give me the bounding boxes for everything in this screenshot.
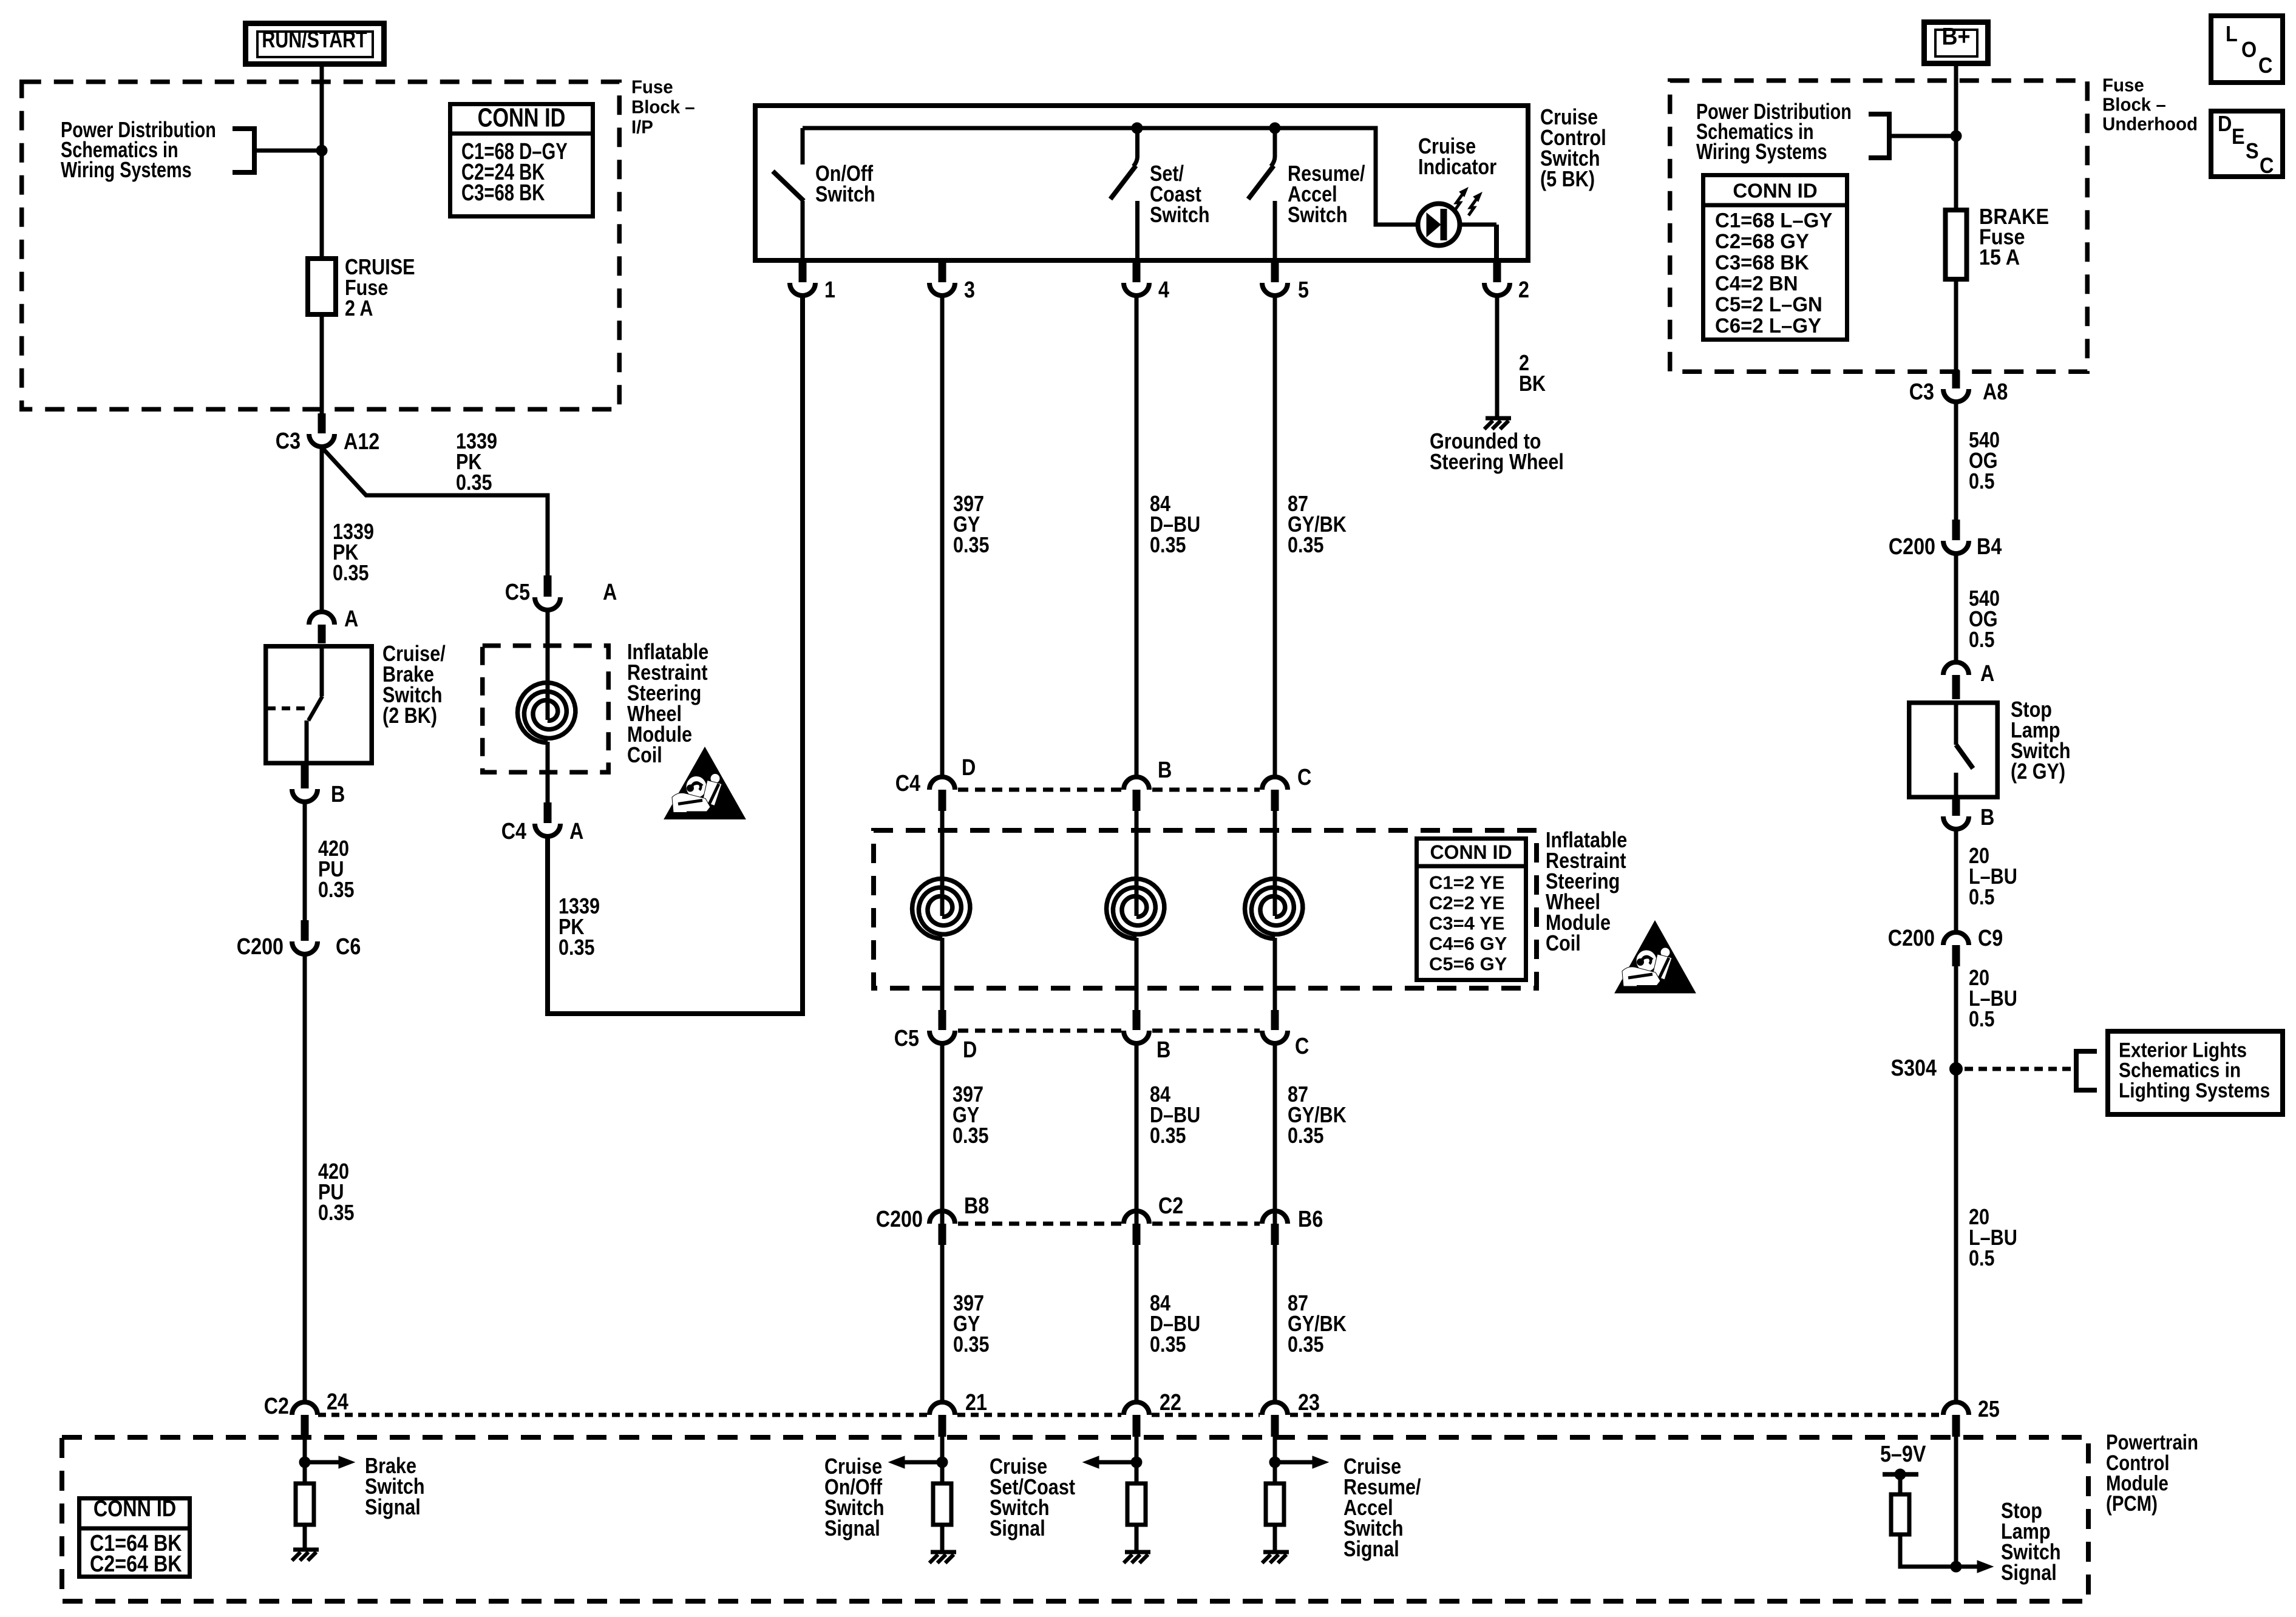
fuse CRUISE 2A (308, 259, 336, 314)
svg-text:B: B (1158, 758, 1172, 783)
connector C200/B6 (1262, 1211, 1288, 1245)
svg-text:Signal: Signal (2001, 1561, 2057, 1585)
switch On/Off (773, 128, 804, 263)
svg-text:Wiring Systems: Wiring Systems (1696, 139, 1827, 164)
label On/Off Switch (815, 162, 875, 207)
wire C3 to brake switch A (320, 446, 324, 611)
label Stop Lamp Switch (2 GY) (2011, 698, 2071, 784)
dashed actuation line brake switch (267, 707, 307, 711)
connector pin 2 (1484, 262, 1510, 296)
wire label 420 PU 0.35 upper (318, 837, 355, 903)
svg-text:Switch: Switch (1288, 203, 1348, 228)
svg-text:B: B (1156, 1037, 1170, 1063)
svg-text:C200: C200 (1888, 926, 1935, 951)
resistor PCM stop lamp pullup (1891, 1494, 1909, 1534)
svg-text:C5: C5 (894, 1026, 919, 1051)
svg-text:Signal: Signal (824, 1517, 880, 1541)
svg-text:L: L (2226, 22, 2238, 46)
label Powertrain Control Module (PCM) (2106, 1431, 2198, 1516)
ground PCM 2 (929, 1552, 956, 1563)
ground PCM 4 (1262, 1552, 1289, 1563)
svg-text:O: O (2241, 38, 2257, 62)
svg-text:C: C (2260, 154, 2274, 178)
table rows C1=68 D-GY C2=24 BK C3=68 BK (461, 138, 568, 206)
connector pin 5 (1262, 262, 1288, 296)
svg-text:C2=2 YE: C2=2 YE (1429, 892, 1504, 914)
svg-text:CONN ID: CONN ID (93, 1496, 176, 1522)
wire pin 21 into PCM (940, 1437, 945, 1483)
wire C5/C down (1273, 1045, 1277, 1402)
connector C3/A12 (309, 413, 335, 447)
wire resistor to ground 1 (303, 1525, 307, 1550)
table rows C1=2 YE C2=2 YE C3=4 YE C4=6 GY C5=6 GY (1429, 872, 1507, 974)
svg-text:C4=2 BN: C4=2 BN (1715, 273, 1798, 296)
terminal RUN/START (246, 24, 384, 64)
PCM connector dotted line (318, 1413, 1941, 1417)
svg-text:C6=2 L–GY: C6=2 L–GY (1715, 314, 1821, 337)
node junction power distribution (316, 145, 327, 156)
svg-text:D: D (963, 1037, 977, 1063)
connector C4/A coil (535, 802, 560, 836)
svg-text:C: C (1295, 1034, 1309, 1059)
coil spiral steering wheel module (518, 683, 576, 743)
node S304 (1950, 1063, 1963, 1076)
svg-text:0.35: 0.35 (1288, 1124, 1324, 1148)
wire label 397 GY 0.35 top (953, 492, 990, 558)
wire C5/D down (940, 1045, 945, 1402)
node cruise set/coast junction (1131, 1457, 1142, 1468)
coil spiral 3 (912, 879, 970, 939)
connector C5/B (1124, 1010, 1149, 1043)
wire label 397 GY 0.35 bottom (953, 1292, 990, 1357)
svg-text:Switch: Switch (815, 183, 875, 207)
inflatable restraint coil dashed box (483, 646, 609, 773)
connector row dashed line C200 (958, 1222, 1260, 1226)
connector row dashed line C4 (958, 788, 1260, 792)
wire C2/24 into PCM (303, 1437, 307, 1483)
svg-text:4: 4 (1158, 277, 1169, 303)
wire C4/A to cruise switch pin 1 (548, 297, 803, 1014)
svg-text:B: B (1980, 805, 1994, 830)
switch contacts stop lamp (1956, 703, 1973, 798)
svg-text:B4: B4 (1977, 534, 2002, 560)
svg-text:B6: B6 (1298, 1207, 1323, 1232)
wire label 20 L-BU 0.5 third (1969, 1205, 2017, 1271)
wire B to C200/C9 (1954, 830, 1958, 931)
svg-text:C3: C3 (276, 429, 301, 454)
svg-text:22: 22 (1160, 1390, 1181, 1415)
connector pin 4 (1124, 262, 1149, 296)
svg-text:Fuse: Fuse (631, 77, 673, 98)
wire label 2 BK (1519, 351, 1546, 396)
arrow cruise resume/accel signal (1275, 1456, 1328, 1468)
fuse BRAKE 15A (1946, 210, 1967, 279)
connector C200/C6 (292, 920, 318, 954)
svg-text:A8: A8 (1983, 379, 2008, 405)
wire resistor to ground 3 (1135, 1525, 1139, 1552)
label Power Distribution Schematics in Wiring Systems (61, 117, 216, 182)
table CONN ID underhood (1703, 175, 1847, 340)
svg-text:Signal: Signal (990, 1517, 1045, 1541)
label Power Distribution Schematics in Wiring Systems right (1696, 99, 1852, 164)
svg-text:Block –: Block – (2102, 95, 2166, 115)
wire label 84 D-BU 0.35 bottom (1150, 1292, 1200, 1357)
svg-text:24: 24 (327, 1389, 348, 1415)
wire RUN/START to fuse (320, 67, 324, 261)
connector pin 1 (790, 262, 815, 296)
svg-text:C3=68 BK: C3=68 BK (1715, 251, 1809, 274)
label Cruise Resume/Accel Switch Signal (1343, 1455, 1421, 1562)
connector A brake switch (309, 612, 335, 643)
wire into coil 3 (940, 811, 945, 916)
wire dashed S304 to exterior lights (1965, 1067, 2071, 1071)
svg-text:1: 1 (824, 277, 835, 303)
connector row dashed line C5 (958, 1029, 1260, 1033)
svg-text:C5: C5 (505, 580, 530, 605)
svg-text:0.35: 0.35 (953, 534, 990, 558)
resistor PCM brake input (296, 1483, 314, 1525)
LED light arrows (1455, 188, 1482, 215)
svg-text:C5=2 L–GN: C5=2 L–GN (1715, 294, 1822, 317)
arrow stop lamp switch signal (1956, 1561, 1993, 1573)
node cruise on/off junction (937, 1457, 948, 1468)
connector pin 3 (929, 262, 955, 296)
svg-text:0.35: 0.35 (333, 561, 369, 586)
label Cruise/Brake Switch (2 BK) (382, 642, 446, 728)
connector pin 23 (1262, 1402, 1288, 1437)
label Cruise Indicator (1418, 135, 1496, 180)
svg-text:0.35: 0.35 (456, 471, 492, 495)
wire out of coil 1 (546, 742, 550, 804)
svg-text:Underhood: Underhood (2102, 114, 2198, 135)
LOC reference box (2211, 16, 2283, 83)
svg-text:CONN ID: CONN ID (1733, 180, 1817, 202)
label Fuse Block - I/P (631, 77, 695, 138)
stop lamp switch box (1909, 703, 1998, 798)
svg-text:25: 25 (1978, 1397, 2000, 1422)
LED cruise indicator (1418, 204, 1497, 246)
svg-text:0.5: 0.5 (1969, 1008, 1995, 1032)
wire pin 22 into PCM (1135, 1437, 1139, 1483)
svg-text:(PCM): (PCM) (2106, 1492, 2158, 1516)
svg-text:RUN/START: RUN/START (262, 27, 367, 53)
wire label 397 GY 0.35 middle (953, 1083, 989, 1148)
cruise brake switch box (266, 646, 372, 764)
ground PCM 1 (292, 1550, 319, 1561)
connector pin 21 (929, 1402, 955, 1437)
svg-text:Signal: Signal (1343, 1537, 1399, 1562)
label Inflatable Restraint Steering Wheel Module Coil left (627, 640, 708, 768)
svg-text:Steering Wheel: Steering Wheel (1430, 450, 1564, 475)
terminal B+ (1924, 22, 1988, 64)
wire label 540 OG 0.5 upper (1969, 429, 2000, 494)
cruise control switch box (755, 106, 1528, 260)
wire label 87 GY/BK 0.35 top (1288, 492, 1347, 558)
svg-text:0.35: 0.35 (1150, 534, 1186, 558)
svg-text:(2 BK): (2 BK) (382, 704, 437, 728)
connector C3/A8 (1943, 370, 1969, 402)
node bus resume/accel (1269, 123, 1280, 134)
wire label 1339 PK 0.35 right branch (456, 430, 497, 495)
wire label 87 GY/BK 0.35 middle (1288, 1083, 1347, 1148)
svg-text:C4=6 GY: C4=6 GY (1429, 933, 1507, 954)
wire B+ down (1954, 66, 1958, 210)
svg-text:C3: C3 (1909, 379, 1934, 405)
connector C5/A coil (535, 575, 560, 610)
wire resistor to ground 4 (1273, 1525, 1277, 1552)
label BRAKE Fuse 15 A (1979, 205, 2049, 269)
wire label 87 GY/BK 0.35 bottom (1288, 1292, 1347, 1357)
wire pin 23 into PCM (1273, 1437, 1277, 1483)
svg-text:C: C (2258, 53, 2272, 78)
svg-text:C200: C200 (1889, 534, 1935, 560)
table CONN ID PCM (80, 1496, 190, 1577)
connector C200/C2 (1124, 1211, 1149, 1245)
wire fuse to C3/A8 (1954, 279, 1958, 371)
svg-text:C2=68 GY: C2=68 GY (1715, 231, 1809, 254)
table CONN ID fuse block I/P (450, 103, 593, 216)
airbag warning triangle 2 (1615, 921, 1696, 993)
wire label 84 D-BU 0.35 middle (1150, 1083, 1200, 1148)
svg-text:C2: C2 (1158, 1193, 1183, 1219)
wire label 540 OG 0.5 lower (1969, 587, 2000, 653)
svg-text:C3=4 YE: C3=4 YE (1429, 912, 1504, 934)
fuse block underhood dashed box (1670, 81, 2088, 372)
wire into coil 4 (1135, 811, 1139, 916)
svg-text:S: S (2246, 139, 2259, 163)
switch Resume/Accel (1248, 128, 1275, 263)
wire diagonal branch to C5 (322, 447, 548, 575)
svg-text:C4: C4 (895, 771, 921, 796)
svg-text:BK: BK (1519, 372, 1546, 396)
bracket power distribution reference (233, 129, 318, 172)
svg-text:D: D (962, 755, 976, 781)
svg-text:Indicator: Indicator (1418, 155, 1496, 180)
svg-text:C9: C9 (1978, 926, 2003, 951)
resistor PCM on/off input (933, 1483, 951, 1525)
svg-text:C1=2 YE: C1=2 YE (1429, 872, 1504, 893)
label Cruise On/Off Switch Signal (824, 1455, 885, 1541)
switch Set/Coast (1110, 128, 1138, 263)
table rows C1=64 BK C2=64 BK (90, 1531, 182, 1577)
svg-text:S304: S304 (1891, 1056, 1937, 1081)
svg-text:E: E (2232, 124, 2245, 149)
svg-text:5: 5 (1298, 277, 1309, 303)
connector pin 22 (1124, 1402, 1149, 1437)
wire label 20 L-BU 0.5 first (1969, 844, 2017, 910)
svg-text:0.35: 0.35 (953, 1124, 989, 1148)
wire label 1339 PK 0.35 below coil (559, 895, 600, 960)
connector C200/B8 (929, 1211, 955, 1245)
exterior lights reference box (2108, 1031, 2283, 1114)
svg-text:0.35: 0.35 (1150, 1333, 1186, 1357)
svg-text:0.35: 0.35 (1150, 1124, 1186, 1148)
wire C9 to S304 (1954, 966, 1958, 1402)
wire into coil 1 (546, 612, 550, 720)
wire internal supply bus (803, 128, 1417, 225)
label Resume/Accel Switch (1288, 162, 1365, 228)
DESC reference box (2211, 111, 2283, 178)
wire C3/A8 to C200/B4 (1954, 402, 1958, 521)
svg-text:3: 3 (964, 277, 975, 303)
coil spiral 5 (1245, 879, 1303, 939)
svg-text:2: 2 (1518, 277, 1529, 303)
connector C5/D (929, 1010, 955, 1043)
table rows C1..C6 underhood (1715, 209, 1832, 337)
svg-text:Lighting Systems: Lighting Systems (2119, 1079, 2270, 1102)
svg-text:0.35: 0.35 (1288, 1333, 1324, 1357)
svg-text:21: 21 (965, 1390, 987, 1415)
label Cruise Set/Coast Switch Signal (990, 1455, 1075, 1541)
svg-text:0.5: 0.5 (1969, 1247, 1995, 1271)
wire label 420 PU 0.35 lower (318, 1160, 355, 1225)
svg-text:0.5: 0.5 (1969, 628, 1995, 653)
svg-text:D: D (2218, 112, 2232, 136)
svg-text:(2 GY): (2 GY) (2011, 760, 2065, 784)
wire pin 5 down (1273, 296, 1277, 776)
svg-text:0.35: 0.35 (559, 936, 595, 960)
svg-text:C2: C2 (264, 1394, 289, 1419)
table CONN ID coil (1417, 839, 1526, 980)
svg-text:C: C (1297, 765, 1311, 790)
node bus set/coast (1132, 123, 1143, 134)
wire label 1339 PK 0.35 left branch (333, 520, 374, 586)
wire C200/B4 to stop lamp A (1954, 554, 1958, 662)
ground steering wheel (1484, 418, 1511, 429)
svg-text:B: B (331, 782, 345, 807)
connector C4/D (929, 777, 955, 811)
arrow brake switch signal (305, 1456, 355, 1468)
svg-text:C200: C200 (876, 1207, 923, 1232)
connector C2/24 PCM (292, 1402, 318, 1437)
svg-text:C1=68 L–GY: C1=68 L–GY (1715, 209, 1832, 232)
svg-text:A: A (569, 819, 583, 844)
svg-text:C4: C4 (501, 819, 527, 844)
wire label 84 D-BU 0.35 top (1150, 492, 1200, 558)
svg-text:Fuse: Fuse (2102, 75, 2144, 96)
label Set/Coast Switch (1150, 162, 1210, 228)
label Inflatable Restraint Steering Wheel Module Coil right (1546, 829, 1627, 956)
label CRUISE Fuse 2 A (345, 256, 415, 321)
svg-text:CONN ID: CONN ID (1430, 841, 1512, 863)
resistor PCM set/coast input (1127, 1483, 1146, 1525)
wire resistor to ground 2 (940, 1525, 945, 1552)
node stop lamp switch signal (1951, 1561, 1961, 1572)
connector C4/C (1262, 777, 1288, 811)
inflatable restraint coil dashed box 2 (874, 830, 1537, 988)
svg-text:A: A (1980, 661, 1994, 686)
wire out of coil 4 (1135, 938, 1139, 1010)
label Stop Lamp Switch Signal (2001, 1499, 2061, 1585)
svg-text:I/P: I/P (631, 117, 653, 138)
svg-text:C5=6 GY: C5=6 GY (1429, 953, 1507, 974)
svg-text:23: 23 (1298, 1390, 1320, 1415)
wire C5/B down (1135, 1045, 1139, 1402)
internal 5-9V supply bar (1883, 1469, 1918, 1494)
connector pin 25 (1943, 1402, 1969, 1437)
bracket power distribution reference right (1869, 114, 1952, 158)
svg-text:A: A (344, 606, 358, 632)
connector A stop lamp (1943, 662, 1969, 699)
svg-text:2 A: 2 A (345, 297, 373, 321)
wire pin 4 down (1135, 296, 1139, 776)
svg-text:C200: C200 (237, 934, 284, 960)
svg-text:C3=68 BK: C3=68 BK (461, 180, 545, 206)
wire pin 25 into PCM (1954, 1437, 1958, 1567)
ground PCM 3 (1124, 1552, 1150, 1563)
label Fuse Block - Underhood (2102, 75, 2198, 135)
svg-text:Signal: Signal (365, 1496, 421, 1520)
connector B brake switch (292, 764, 318, 802)
wire out of coil 3 (940, 938, 945, 1010)
arrow cruise on/off signal (889, 1456, 942, 1468)
resistor PCM resume input (1266, 1483, 1284, 1525)
svg-text:0.35: 0.35 (1288, 534, 1324, 558)
wire label 20 L-BU 0.5 second (1969, 966, 2017, 1032)
svg-text:Switch: Switch (1150, 203, 1210, 228)
wire resistor to stop lamp node (1900, 1534, 1952, 1567)
svg-text:Wiring Systems: Wiring Systems (61, 157, 192, 182)
connector C200/C9 (1943, 932, 1969, 966)
coil spiral 4 (1107, 879, 1164, 939)
wire pin 2 to ground (1495, 296, 1500, 418)
svg-text:B8: B8 (964, 1193, 989, 1219)
svg-text:0.5: 0.5 (1969, 470, 1995, 494)
wire LED to pin 2 (1494, 225, 1499, 263)
bracket exterior lights (2076, 1051, 2097, 1090)
svg-text:Coil: Coil (1546, 932, 1581, 956)
svg-text:15 A: 15 A (1979, 245, 2020, 269)
switch contacts brake switch (307, 646, 322, 764)
powertrain control module dashed box (62, 1437, 2088, 1601)
svg-text:A: A (603, 580, 617, 605)
label Exterior Lights Schematics in Lighting Systems (2119, 1039, 2270, 1102)
arrow cruise set/coast signal (1083, 1456, 1136, 1468)
label Brake Switch Signal (365, 1454, 425, 1520)
connector C4/B (1124, 777, 1149, 811)
svg-text:Coil: Coil (627, 744, 662, 768)
label Grounded to Steering Wheel (1430, 430, 1564, 475)
svg-text:0.35: 0.35 (953, 1333, 990, 1357)
wire C200 to C2 (303, 955, 307, 1401)
svg-text:C6: C6 (336, 934, 361, 960)
wire B to C200 (303, 802, 307, 921)
wire pin 3 down (940, 296, 945, 776)
airbag warning triangle 1 (664, 747, 746, 819)
svg-text:CONN ID: CONN ID (478, 103, 566, 132)
svg-text:0.5: 0.5 (1969, 886, 1995, 910)
connector C5/C (1262, 1010, 1288, 1043)
svg-text:5–9V: 5–9V (1880, 1442, 1926, 1467)
node junction power distribution right (1951, 131, 1961, 141)
node cruise resume/accel junction (1269, 1457, 1280, 1468)
svg-text:Block –: Block – (631, 97, 695, 118)
label Cruise Control Switch (5 BK) (1540, 106, 1606, 192)
wire into coil 5 (1273, 811, 1277, 916)
svg-text:(5 BK): (5 BK) (1540, 168, 1595, 192)
node brake switch signal junction (299, 1457, 310, 1468)
wire fuse to C3 connector (320, 314, 324, 415)
svg-text:0.35: 0.35 (318, 878, 355, 903)
connector B stop lamp (1943, 798, 1969, 829)
connector C200/B4 (1943, 520, 1969, 554)
svg-text:C2=64 BK: C2=64 BK (90, 1551, 182, 1577)
svg-text:A12: A12 (344, 429, 379, 455)
svg-text:B+: B+ (1941, 24, 1970, 50)
fuse block I/P dashed box (22, 82, 620, 410)
wire out of coil 5 (1273, 938, 1277, 1010)
svg-text:0.35: 0.35 (318, 1201, 355, 1225)
